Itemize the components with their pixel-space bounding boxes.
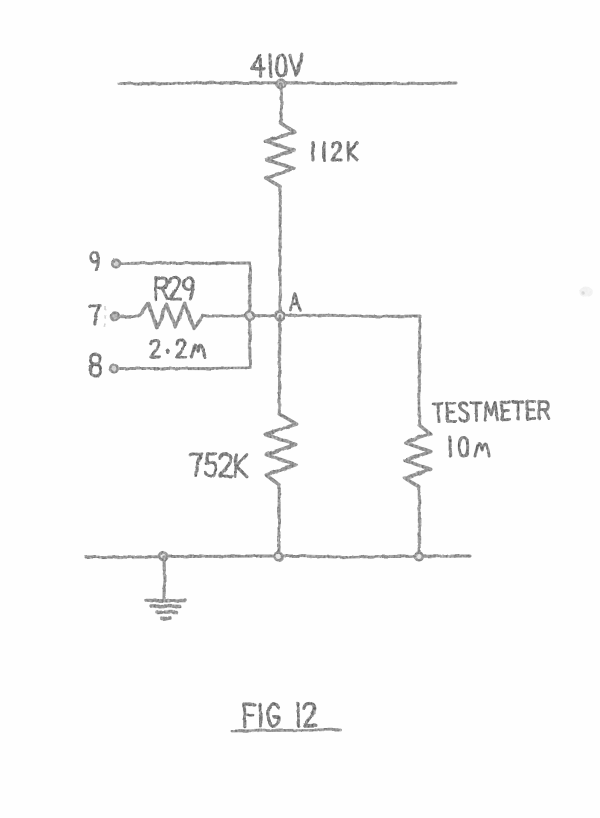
label 2.2M value [151,340,205,357]
wire terminal 7 to resistor R29 [119,314,139,318]
label FIG 12 caption [244,703,315,726]
label 752K value [190,453,248,476]
terminal 8 [110,365,118,373]
label R29 [156,278,193,300]
wire top supply rail 410V [119,83,456,84]
wire node A down to resistor 752K [278,316,282,414]
label terminal 8 [90,354,100,376]
node A junction [276,312,285,321]
wire terminal 9 to left bus [120,261,250,265]
resistor R29 2.2M [139,303,203,328]
node junction left bus with R29 output [246,312,254,320]
wire terminal 8 to left bus [118,367,250,371]
node junction testmeter on rail [415,553,423,561]
label terminal 7 [90,305,100,324]
wire bottom ground rail [86,556,470,557]
terminal 9 [112,260,120,268]
resistor testmeter 10M [405,425,431,487]
resistor 112K [265,123,295,187]
label 10M value [450,438,489,457]
label 112K value [313,143,357,161]
node junction 752K on rail [275,553,283,561]
wire ground stub [162,557,166,599]
faint paper smudge [579,287,593,297]
label node A [290,294,300,310]
wire testmeter to bottom rail [418,487,421,556]
wire resistor 752K to bottom rail [278,485,281,556]
ground symbol [147,601,186,619]
caption underline [232,730,340,732]
wire from 410V rail down to resistor 112K [280,84,284,123]
node top junction 410V rail [277,80,285,88]
resistor 752K [265,414,296,485]
wire right branch down to testmeter [418,316,422,425]
label 410V [251,55,302,77]
label TESTMETER [433,401,549,422]
wire resistor R29 to node A and testmeter branch [203,315,420,316]
wire from resistor 112K down to node A [279,187,282,316]
stray pencil dash near terminal 7 [104,306,107,332]
node junction ground stub on rail [160,553,168,561]
terminal 7 [111,313,119,321]
label terminal 9 [91,253,99,271]
wire left bus vertical joining 9 7 8 [248,263,251,368]
